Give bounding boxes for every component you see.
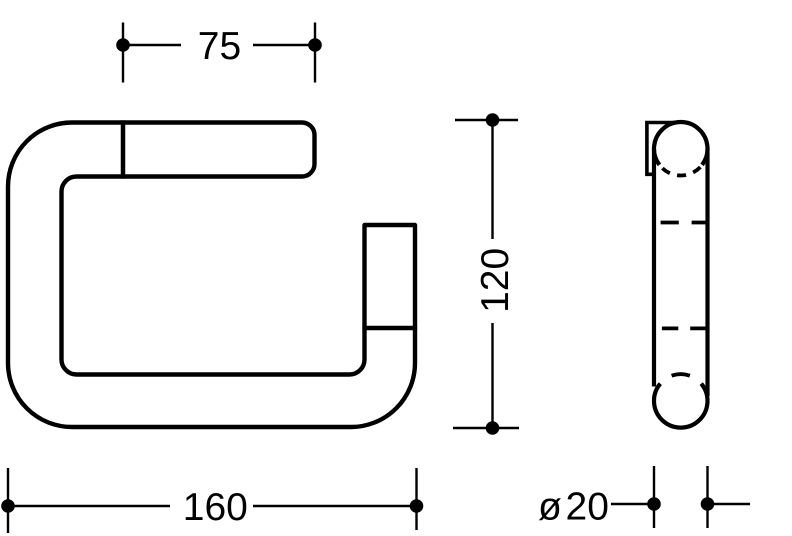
front view: joint line on top bar <box>121 120 126 178</box>
svg-text:120: 120 <box>474 248 517 313</box>
side view: hidden line (joint) <box>662 326 707 330</box>
dimension 75: dimension line <box>123 44 315 46</box>
svg-text:75: 75 <box>198 25 241 68</box>
svg-text:ø: ø <box>538 486 562 529</box>
dimension diameter 20: left dot <box>647 497 661 511</box>
dimension 75: left dot <box>116 38 130 52</box>
dimension diameter 20: right dot <box>701 497 715 511</box>
dimension diameter 20: extension lines <box>654 466 708 528</box>
side view: left edge <box>652 149 656 387</box>
side view: body silhouette fill (masks plate) <box>654 122 708 428</box>
dimension 160: extension lines <box>8 468 417 533</box>
side view: top circle hidden arc (dashed) <box>659 165 702 176</box>
front view: joint line on right bar <box>362 326 417 330</box>
side view: right edge <box>705 149 709 396</box>
dimension 120: extension lines <box>453 120 519 428</box>
dimension 120: dimension line <box>491 120 493 428</box>
side view: bottom circle hidden dash <box>672 374 690 376</box>
side view: bottom circle solid arc <box>654 384 707 428</box>
svg-text:160: 160 <box>183 486 248 529</box>
side view: wall plate <box>647 123 683 175</box>
side view: hidden line (bar top) <box>661 221 706 225</box>
dimension 75: right dot <box>308 38 322 52</box>
dimension 160: left dot <box>1 499 15 513</box>
side view: top circle solid arc <box>654 122 708 165</box>
front view: holder outline <box>8 123 415 428</box>
dimension 120: bottom dot <box>486 421 500 435</box>
dimension diameter 20: leader lines <box>611 503 750 505</box>
dimension 160: right dot <box>410 499 424 513</box>
dimension 120: top dot <box>486 113 500 127</box>
dimension 160: dimension line <box>8 505 417 507</box>
dimension 75: extension lines <box>123 23 315 83</box>
svg-text:20: 20 <box>566 486 609 529</box>
